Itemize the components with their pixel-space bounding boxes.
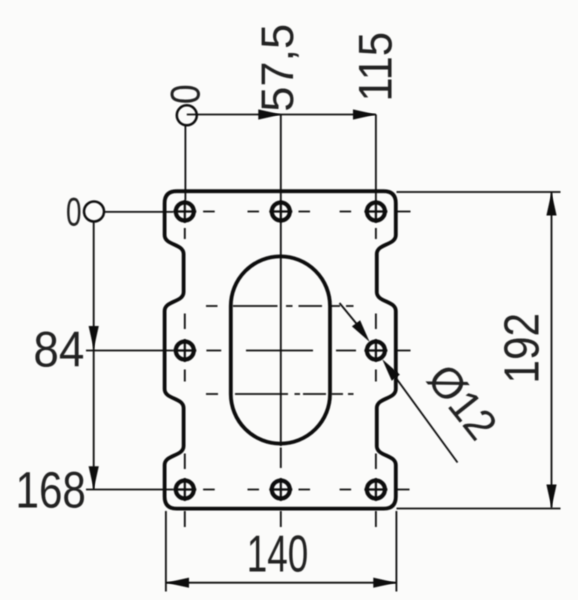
svg-text:192: 192 bbox=[496, 313, 550, 384]
svg-text:0: 0 bbox=[162, 84, 209, 104]
svg-text:57,5: 57,5 bbox=[252, 24, 303, 112]
svg-text:140: 140 bbox=[247, 526, 309, 584]
svg-text:168: 168 bbox=[16, 461, 86, 518]
svg-text:115: 115 bbox=[349, 32, 402, 102]
svg-text:84: 84 bbox=[33, 322, 84, 378]
svg-text:0: 0 bbox=[66, 190, 82, 234]
